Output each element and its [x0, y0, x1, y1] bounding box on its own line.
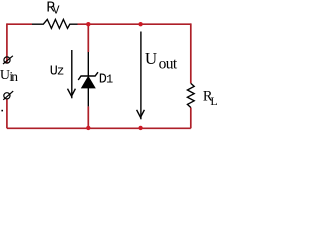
node junction dot top at output: [138, 22, 142, 26]
wire right rail upper: [190, 23, 192, 83]
label Uin: [0, 68, 18, 84]
stray dot: [1, 110, 3, 112]
voltage arrow Uz: [68, 50, 76, 98]
svg-text:z: z: [57, 65, 65, 79]
wire diode branch upper: [87, 24, 89, 52]
resistor RV: [32, 19, 78, 28]
svg-text:L: L: [210, 94, 217, 108]
zener diode D1 cathode bar with bent ends: [78, 72, 98, 80]
wire top rail right of resistor: [78, 23, 191, 25]
zener diode D1 leads: [87, 52, 89, 76]
wire left rail lower: [6, 99, 8, 128]
label Uz: [50, 65, 65, 80]
terminal input top: [3, 56, 13, 64]
node junction dot bottom at diode branch: [86, 126, 90, 130]
svg-text:in: in: [9, 69, 18, 84]
node junction dot top at diode branch: [86, 22, 90, 26]
resistor RL: [187, 83, 194, 107]
terminal input bottom: [3, 91, 13, 100]
svg-text:1: 1: [106, 73, 113, 87]
label RV: [46, 1, 59, 18]
wire diode branch lower: [87, 106, 89, 128]
svg-text:U: U: [145, 49, 157, 68]
voltage arrow Uout: [137, 32, 145, 120]
wire bottom rail: [7, 127, 191, 129]
label D1: [99, 73, 113, 88]
label RL: [203, 89, 218, 108]
svg-text:out: out: [159, 56, 178, 73]
wire top rail: [7, 23, 32, 25]
svg-text:V: V: [53, 4, 60, 17]
wire left rail upper: [6, 23, 8, 63]
node junction dot bottom at output: [138, 126, 142, 130]
wire right rail lower: [190, 108, 192, 129]
label Uout: [145, 49, 178, 73]
zener diode D1 triangle: [82, 77, 96, 89]
